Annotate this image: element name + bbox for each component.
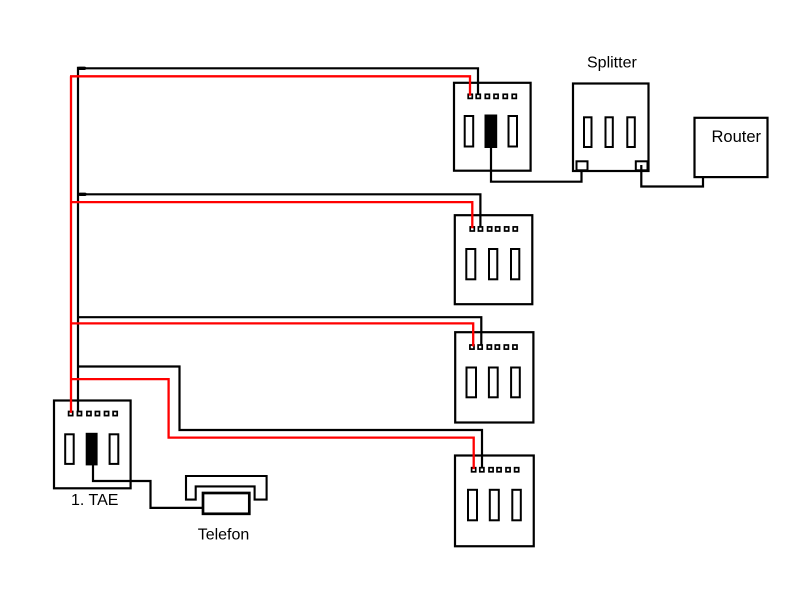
svg-text:Splitter: Splitter [587, 55, 637, 72]
wire black branch 4 stepped to TAE4 pin 2 [77, 367, 482, 468]
wire red branch 2 to TAE2 pin 1 [70, 202, 472, 228]
wire black branch 2 start artifact [80, 193, 85, 196]
label Telefon [198, 527, 250, 544]
socket TAE2 [455, 215, 533, 304]
wire black trunk vertical from 1.TAE pin 2 up left side [77, 67, 79, 412]
wire splitter right pin to router [641, 165, 703, 187]
svg-text:Telefon: Telefon [198, 527, 250, 544]
wire TAE1 middle slot to splitter left pin [491, 146, 582, 182]
socket TAE3 [455, 332, 533, 422]
router box [695, 118, 768, 177]
socket TAE1 top right with filled middle slot [454, 83, 531, 171]
telephone handset cradle [186, 476, 267, 500]
wire red branch 1 to TAE1 pin 1 [70, 76, 470, 95]
socket 1. TAE bottom left with filled middle slot [54, 401, 131, 489]
wire black branch 1 to TAE1 pin 2 [77, 68, 478, 94]
svg-text:Router: Router [712, 128, 762, 146]
wire black branch 1 start artifact [80, 67, 85, 70]
label Splitter [587, 55, 637, 72]
svg-text:1. TAE: 1. TAE [71, 492, 118, 509]
wire red trunk vertical from 1.TAE pin 1 up left side [70, 76, 72, 413]
wire black branch 2 to TAE2 pin 2 [77, 194, 480, 227]
label 1. TAE [71, 492, 118, 509]
wire 1.TAE middle slot to telephone [93, 463, 204, 508]
wire red branch 3 to TAE3 pin 1 [70, 323, 473, 346]
wire red branch 4 stepped to TAE4 pin 1 [70, 379, 474, 469]
label Router [712, 128, 762, 146]
splitter box with three slots and two bottom pins [573, 84, 649, 172]
socket TAE4 [455, 456, 534, 547]
telephone body rectangle [203, 493, 249, 514]
wire black branch 3 to TAE3 pin 2 [77, 317, 481, 345]
